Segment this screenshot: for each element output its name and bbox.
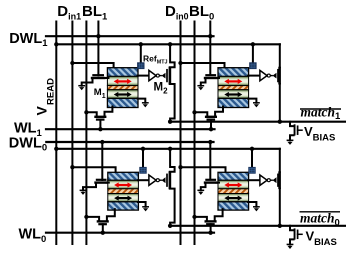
- node M2 TL rail tap: [168, 42, 172, 46]
- transistor M1 BR gate bar: [206, 179, 215, 181]
- access transistor BR channel bar: [206, 220, 216, 222]
- wire DWL1 line: [46, 35, 214, 37]
- access transistor TR channel bar: [206, 116, 216, 118]
- wire RefMTJ-BR to VREAD rail: [251, 149, 253, 169]
- node M2 BR match: [278, 224, 282, 228]
- wire BL0 column: [194, 22, 196, 245]
- wire Din feed BL: [72, 167, 115, 173]
- node M2 BL rail tap: [168, 147, 172, 151]
- wire RefMTJ-TL to VREAD rail: [140, 44, 142, 63]
- wire DWL0 gate stub left: [101, 142, 103, 180]
- wire M1 BR source to ground: [201, 183, 206, 191]
- Ref MTJ device BL: [140, 167, 147, 173]
- wire DWL1 gate stub right: [209, 22, 211, 75]
- node WL gate TR: [209, 127, 213, 131]
- wire M1 BL source to ground: [83, 183, 96, 191]
- node BL TR: [192, 110, 196, 114]
- access transistor TL gate bar: [97, 118, 103, 120]
- transistor M2 TR channel bar: [278, 67, 281, 85]
- node VREAD-rail0: [54, 147, 58, 151]
- MTJ stack BL fixed layer (black arrow): [108, 194, 139, 202]
- wire stack TL to right ground: [138, 99, 146, 103]
- wire access transistor BL drain to stack bottom: [107, 209, 115, 221]
- node Din feed BL: [70, 165, 74, 169]
- ground M1 TR: [197, 86, 204, 91]
- wire M2 BL drain bus: [170, 149, 175, 172]
- node Din feed TR: [178, 61, 182, 65]
- wire match0 line: [170, 225, 346, 227]
- wire BL to access transistor BL: [86, 217, 99, 222]
- transistor M2 BL gate bar: [166, 174, 168, 186]
- wire access gate BR to WL: [210, 224, 212, 233]
- ground stack BL: [142, 207, 149, 212]
- MTJ stack BR bottom electrode (hatched): [218, 202, 249, 210]
- wire stack TR to right ground: [248, 99, 256, 103]
- MTJ stack BL top electrode (hatched): [108, 172, 139, 180]
- transistor M2 TR gate arrow: [273, 73, 277, 79]
- MTJ stack TR bottom electrode (hatched): [218, 98, 249, 107]
- node WL gate BR: [208, 231, 212, 235]
- node M2 BL match: [168, 224, 172, 228]
- wire WL1 line: [46, 128, 215, 130]
- wire WL0 line: [46, 232, 214, 234]
- Ref MTJ device TL: [138, 63, 145, 69]
- ground VBIAS row0: [287, 244, 294, 249]
- wire Din feed TL: [72, 63, 113, 68]
- transistor M1 TL channel bar: [92, 77, 104, 79]
- MTJ stack BR free layer (red arrow): [218, 180, 249, 189]
- node Din feed TL: [70, 61, 74, 65]
- ground M1 BL: [80, 190, 87, 195]
- node WL gate TL: [98, 127, 102, 131]
- transistor M2 BL channel bar: [169, 171, 172, 189]
- node WL gate BL: [101, 231, 105, 235]
- MTJ stack BR fixed layer (black arrow): [218, 194, 249, 202]
- MTJ stack TR free layer (red arrow): [218, 76, 249, 85]
- wire M2 BR drain bus: [279, 149, 281, 172]
- wire Din feed BR: [181, 167, 226, 173]
- wire BL to access transistor TL: [86, 112, 96, 117]
- access transistor BR gate bar: [207, 223, 213, 225]
- MTJ stack TL free layer (red arrow): [107, 76, 138, 85]
- wire VBIAS row0 source to ground: [290, 239, 294, 244]
- wire Din feed TR: [181, 63, 225, 68]
- wire DWL1 gate stub left: [97, 22, 99, 76]
- wire stack BR to comparator input: [248, 179, 260, 181]
- label match1 (overline): [300, 104, 341, 122]
- wire stack BR to right ground: [248, 202, 256, 207]
- ground stack TL: [142, 103, 149, 108]
- MTJ stack TR top electrode (hatched): [218, 68, 249, 77]
- MTJ stack TR fixed layer (black arrow): [218, 90, 249, 99]
- wire VREAD rail row0: [56, 148, 279, 150]
- MTJ stack TL fixed layer (black arrow): [107, 90, 138, 99]
- wire stack TL to comparator input: [138, 75, 149, 77]
- wire stack BL to right ground: [138, 202, 146, 207]
- wire VBIAS row1 source to ground: [290, 135, 294, 140]
- MTJ stack BL bottom electrode (hatched): [108, 202, 139, 210]
- node Din feed BR: [178, 165, 182, 169]
- transistor M2 TL gate bar: [166, 70, 168, 82]
- transistor M2 BR channel bar: [278, 171, 281, 189]
- MTJ stack TR tunnel barrier: [218, 86, 249, 90]
- MTJ stack TL bottom electrode (hatched): [107, 98, 138, 107]
- transistor VBIAS row0 drain from match line: [290, 226, 294, 230]
- node BL BL: [84, 215, 88, 219]
- ground stack BR: [253, 207, 260, 212]
- wire access gate TL to WL: [99, 120, 101, 130]
- node DWL0-gate right: [208, 140, 212, 144]
- transistor M2 BR gate arrow: [273, 177, 277, 183]
- wire M2 TR source bus: [279, 84, 281, 122]
- node DWL1-gate left: [96, 34, 100, 38]
- wire M1 TR source to ground: [201, 78, 206, 86]
- wire VBIAS row0 gate lead: [298, 233, 302, 235]
- node DWL1-gate right: [208, 34, 212, 38]
- transistor M2 BR gate bar: [277, 174, 279, 186]
- wire VBIAS row1 gate lead: [298, 129, 302, 131]
- transistor M1 BL channel bar: [96, 181, 107, 183]
- MTJ stack BL free layer (red arrow): [108, 180, 139, 189]
- transistor M1 TR gate bar: [206, 74, 215, 76]
- wire DWL0 line: [46, 141, 213, 143]
- MTJ stack BL tunnel barrier: [108, 189, 139, 194]
- access transistor TR gate bar: [208, 118, 214, 120]
- wire M2 TR drain bus: [279, 44, 281, 67]
- wire RefMTJ-TR to VREAD rail: [252, 44, 254, 63]
- wire stack BL to comparator input: [138, 179, 149, 181]
- MTJ stack TL tunnel barrier: [107, 86, 138, 90]
- wire M2 BL source bus: [170, 189, 175, 226]
- node RefMTJ-TR rail: [251, 42, 255, 46]
- wire BL to access transistor TR: [195, 112, 208, 117]
- transistor M2 BL gate arrow: [162, 177, 166, 183]
- wire M1 TR drain to stack: [216, 77, 219, 79]
- access transistor BL channel bar: [98, 220, 108, 222]
- ground M1 BR: [197, 190, 204, 195]
- transistor VBIAS row1 drain from match line: [290, 122, 294, 126]
- transistor VBIAS row0 gate bar: [297, 230, 299, 238]
- access transistor TL channel bar: [96, 116, 106, 118]
- comparator (inverter) TL: [149, 70, 162, 80]
- comparator (inverter) BR: [260, 175, 273, 185]
- Ref MTJ device BR: [249, 167, 256, 173]
- node RefMTJ-BL rail: [141, 147, 145, 151]
- transistor M1 BR channel bar: [205, 181, 216, 183]
- wire M1 TL source to ground: [82, 78, 93, 86]
- Ref MTJ device TR: [250, 63, 257, 69]
- comparator (inverter) TR: [260, 70, 273, 80]
- transistor VBIAS row1 gate bar: [297, 126, 299, 134]
- wire M1 TL drain to stack: [104, 77, 109, 79]
- node DWL0-gate left: [100, 140, 104, 144]
- wire match1 line: [170, 121, 346, 123]
- wire Din0 column: [180, 22, 182, 245]
- wire DWL0 gate stub right: [209, 142, 211, 179]
- wire access transistor BR drain to stack bottom: [215, 209, 223, 221]
- wire M1 BL drain to stack: [106, 182, 109, 184]
- wire RefMTJ-BL to VREAD rail: [142, 149, 144, 169]
- access transistor BL gate bar: [99, 223, 105, 225]
- ground stack TR: [253, 103, 260, 108]
- MTJ stack TL top electrode (hatched): [107, 68, 138, 77]
- wire access gate TR to WL: [210, 120, 212, 130]
- node M2 TR match: [278, 120, 282, 124]
- comparator (inverter) BL: [149, 175, 162, 185]
- MTJ stack BR tunnel barrier: [218, 189, 249, 194]
- wire BL1 column: [85, 22, 87, 245]
- wire access transistor TL drain to stack bottom: [105, 107, 113, 117]
- wire M2 TL source bus: [170, 84, 175, 122]
- node BL TL: [84, 110, 88, 114]
- wire Din1 column: [71, 22, 73, 245]
- wire M2 BR source bus: [279, 189, 281, 226]
- wire VREAD rail row1: [56, 43, 279, 45]
- node RefMTJ-BR rail: [250, 147, 254, 151]
- wire stack TR to comparator input: [248, 75, 260, 77]
- transistor VBIAS row1 channel bar: [294, 124, 296, 135]
- wire M1 BR drain to stack: [216, 182, 219, 184]
- node VREAD-rail1: [54, 42, 58, 46]
- wire access transistor TR drain to stack bottom: [215, 107, 223, 117]
- svg-text:DWL0: DWL0: [9, 135, 47, 153]
- wire BL to access transistor BR: [195, 217, 207, 222]
- ground M1 TL: [78, 86, 85, 91]
- transistor M2 TR gate bar: [277, 70, 279, 82]
- node M2 TL match: [168, 120, 172, 124]
- transistor M1 BL gate bar: [97, 179, 106, 181]
- transistor M2 TL channel bar: [169, 67, 172, 85]
- node RefMTJ-TL rail: [139, 42, 143, 46]
- label match0 (overline): [300, 211, 341, 229]
- ground VBIAS row1: [287, 140, 294, 145]
- node BL BR: [192, 215, 196, 219]
- transistor M1 TR channel bar: [205, 77, 216, 79]
- transistor M2 TL gate arrow: [162, 73, 166, 79]
- wire access gate BL to WL: [102, 224, 104, 233]
- transistor M1 TL gate bar: [93, 74, 103, 76]
- wire M2 TL drain bus: [170, 44, 175, 67]
- wire VREAD column: [55, 22, 57, 245]
- MTJ stack BR top electrode (hatched): [218, 172, 249, 180]
- transistor VBIAS row0 channel bar: [294, 228, 296, 239]
